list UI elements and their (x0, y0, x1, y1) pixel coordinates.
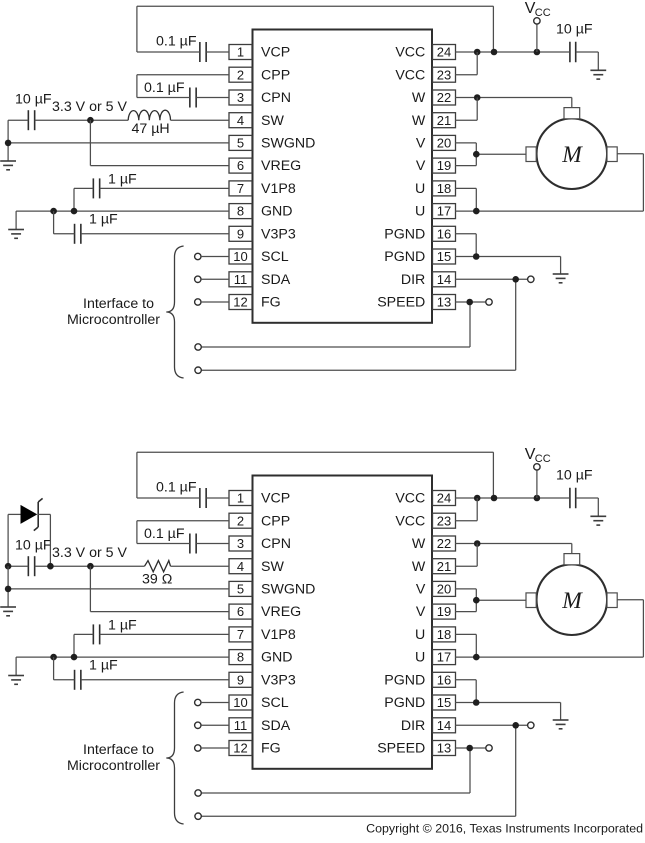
svg-text:19: 19 (437, 604, 451, 619)
svg-text:18: 18 (437, 627, 451, 642)
svg-text:Interface to: Interface to (83, 742, 154, 758)
svg-text:U: U (415, 650, 425, 666)
svg-text:11: 11 (234, 272, 248, 287)
svg-text:10 µF: 10 µF (556, 468, 593, 484)
svg-text:FG: FG (261, 741, 281, 757)
svg-text:11: 11 (234, 718, 248, 733)
svg-text:15: 15 (437, 249, 451, 264)
svg-text:Microcontroller: Microcontroller (67, 312, 160, 328)
svg-text:SCL: SCL (261, 695, 289, 711)
svg-text:1 µF: 1 µF (89, 658, 118, 674)
svg-text:20: 20 (437, 136, 451, 151)
svg-text:10 µF: 10 µF (15, 92, 52, 108)
svg-text:0.1 µF: 0.1 µF (156, 34, 197, 50)
svg-text:22: 22 (437, 90, 451, 105)
svg-text:V1P8: V1P8 (261, 181, 296, 197)
svg-text:U: U (415, 204, 425, 220)
svg-text:V: V (416, 582, 426, 598)
svg-text:16: 16 (437, 226, 451, 241)
svg-text:13: 13 (437, 741, 451, 756)
svg-text:4: 4 (237, 559, 244, 574)
svg-text:U: U (415, 181, 425, 197)
svg-text:M: M (561, 588, 583, 614)
svg-text:SWGND: SWGND (261, 136, 315, 152)
svg-text:U: U (415, 627, 425, 643)
svg-text:PGND: PGND (384, 226, 425, 242)
svg-text:VCP: VCP (261, 45, 290, 61)
svg-text:3: 3 (237, 90, 244, 105)
svg-text:GND: GND (261, 204, 293, 220)
svg-text:VCC: VCC (395, 491, 425, 507)
svg-text:23: 23 (437, 67, 451, 82)
svg-text:1: 1 (237, 45, 244, 60)
svg-text:10 µF: 10 µF (15, 538, 52, 554)
svg-text:SW: SW (261, 559, 284, 575)
svg-text:Interface to: Interface to (83, 296, 154, 312)
svg-text:VCC: VCC (395, 45, 425, 61)
svg-text:14: 14 (437, 272, 451, 287)
svg-text:SCL: SCL (261, 249, 289, 265)
svg-text:6: 6 (237, 604, 244, 619)
svg-text:VCC: VCC (395, 513, 425, 529)
svg-text:10: 10 (233, 695, 247, 710)
svg-text:1 µF: 1 µF (108, 172, 137, 188)
svg-text:CPP: CPP (261, 513, 290, 529)
svg-text:20: 20 (437, 582, 451, 597)
svg-text:10: 10 (233, 249, 247, 264)
svg-text:PGND: PGND (384, 672, 425, 688)
svg-text:SPEED: SPEED (377, 295, 425, 311)
svg-text:W: W (412, 559, 426, 575)
svg-text:V1P8: V1P8 (261, 627, 296, 643)
svg-text:3.3 V or 5 V: 3.3 V or 5 V (52, 545, 127, 561)
svg-text:FG: FG (261, 295, 281, 311)
svg-text:M: M (561, 142, 583, 168)
svg-text:3: 3 (237, 536, 244, 551)
svg-text:21: 21 (437, 113, 451, 128)
svg-text:SPEED: SPEED (377, 741, 425, 757)
svg-text:0.1 µF: 0.1 µF (144, 526, 185, 542)
svg-text:PGND: PGND (384, 249, 425, 265)
svg-text:14: 14 (437, 718, 451, 733)
svg-text:2: 2 (237, 513, 244, 528)
svg-text:0.1 µF: 0.1 µF (144, 80, 185, 96)
svg-text:17: 17 (437, 204, 451, 219)
svg-text:1 µF: 1 µF (89, 212, 118, 228)
svg-text:9: 9 (237, 226, 244, 241)
svg-text:VCP: VCP (261, 491, 290, 507)
svg-text:VREG: VREG (261, 604, 301, 620)
svg-text:19: 19 (437, 158, 451, 173)
svg-text:1 µF: 1 µF (108, 618, 137, 634)
svg-text:3.3 V or 5 V: 3.3 V or 5 V (52, 99, 127, 115)
svg-text:7: 7 (237, 627, 244, 642)
svg-text:24: 24 (437, 491, 451, 506)
svg-text:2: 2 (237, 67, 244, 82)
svg-text:8: 8 (237, 650, 244, 665)
svg-text:CPN: CPN (261, 536, 291, 552)
svg-text:5: 5 (237, 582, 244, 597)
svg-text:V: V (416, 136, 426, 152)
svg-text:CC: CC (535, 453, 551, 465)
svg-text:Microcontroller: Microcontroller (67, 758, 160, 774)
svg-text:24: 24 (437, 45, 451, 60)
svg-text:17: 17 (437, 650, 451, 665)
svg-text:1: 1 (237, 491, 244, 506)
svg-text:V: V (416, 604, 426, 620)
svg-text:Copyright © 2016, Texas Instru: Copyright © 2016, Texas Instruments Inco… (366, 821, 643, 835)
svg-text:10 µF: 10 µF (556, 22, 593, 38)
svg-text:12: 12 (233, 741, 247, 756)
svg-text:0.1 µF: 0.1 µF (156, 480, 197, 496)
svg-text:39 Ω: 39 Ω (142, 571, 172, 587)
svg-text:13: 13 (437, 295, 451, 310)
svg-text:PGND: PGND (384, 695, 425, 711)
svg-text:CC: CC (535, 7, 551, 19)
svg-text:W: W (412, 536, 426, 552)
svg-text:SDA: SDA (261, 272, 291, 288)
svg-text:CPP: CPP (261, 67, 290, 83)
svg-text:VCC: VCC (395, 67, 425, 83)
svg-text:22: 22 (437, 536, 451, 551)
svg-text:SDA: SDA (261, 718, 291, 734)
svg-text:21: 21 (437, 559, 451, 574)
svg-text:VREG: VREG (261, 158, 301, 174)
svg-text:18: 18 (437, 181, 451, 196)
svg-text:V3P3: V3P3 (261, 672, 296, 688)
svg-text:GND: GND (261, 650, 293, 666)
svg-text:SW: SW (261, 113, 284, 129)
svg-text:4: 4 (237, 113, 244, 128)
svg-text:15: 15 (437, 695, 451, 710)
svg-text:7: 7 (237, 181, 244, 196)
svg-text:V3P3: V3P3 (261, 226, 296, 242)
svg-text:8: 8 (237, 204, 244, 219)
svg-text:V: V (416, 158, 426, 174)
svg-text:16: 16 (437, 672, 451, 687)
svg-text:W: W (412, 90, 426, 106)
svg-text:12: 12 (233, 295, 247, 310)
svg-text:5: 5 (237, 136, 244, 151)
svg-text:CPN: CPN (261, 90, 291, 106)
svg-text:6: 6 (237, 158, 244, 173)
svg-text:W: W (412, 113, 426, 129)
svg-text:47 µH: 47 µH (132, 121, 170, 137)
svg-text:DIR: DIR (401, 272, 425, 288)
svg-text:23: 23 (437, 513, 451, 528)
svg-text:SWGND: SWGND (261, 582, 315, 598)
svg-text:DIR: DIR (401, 718, 425, 734)
svg-text:9: 9 (237, 672, 244, 687)
